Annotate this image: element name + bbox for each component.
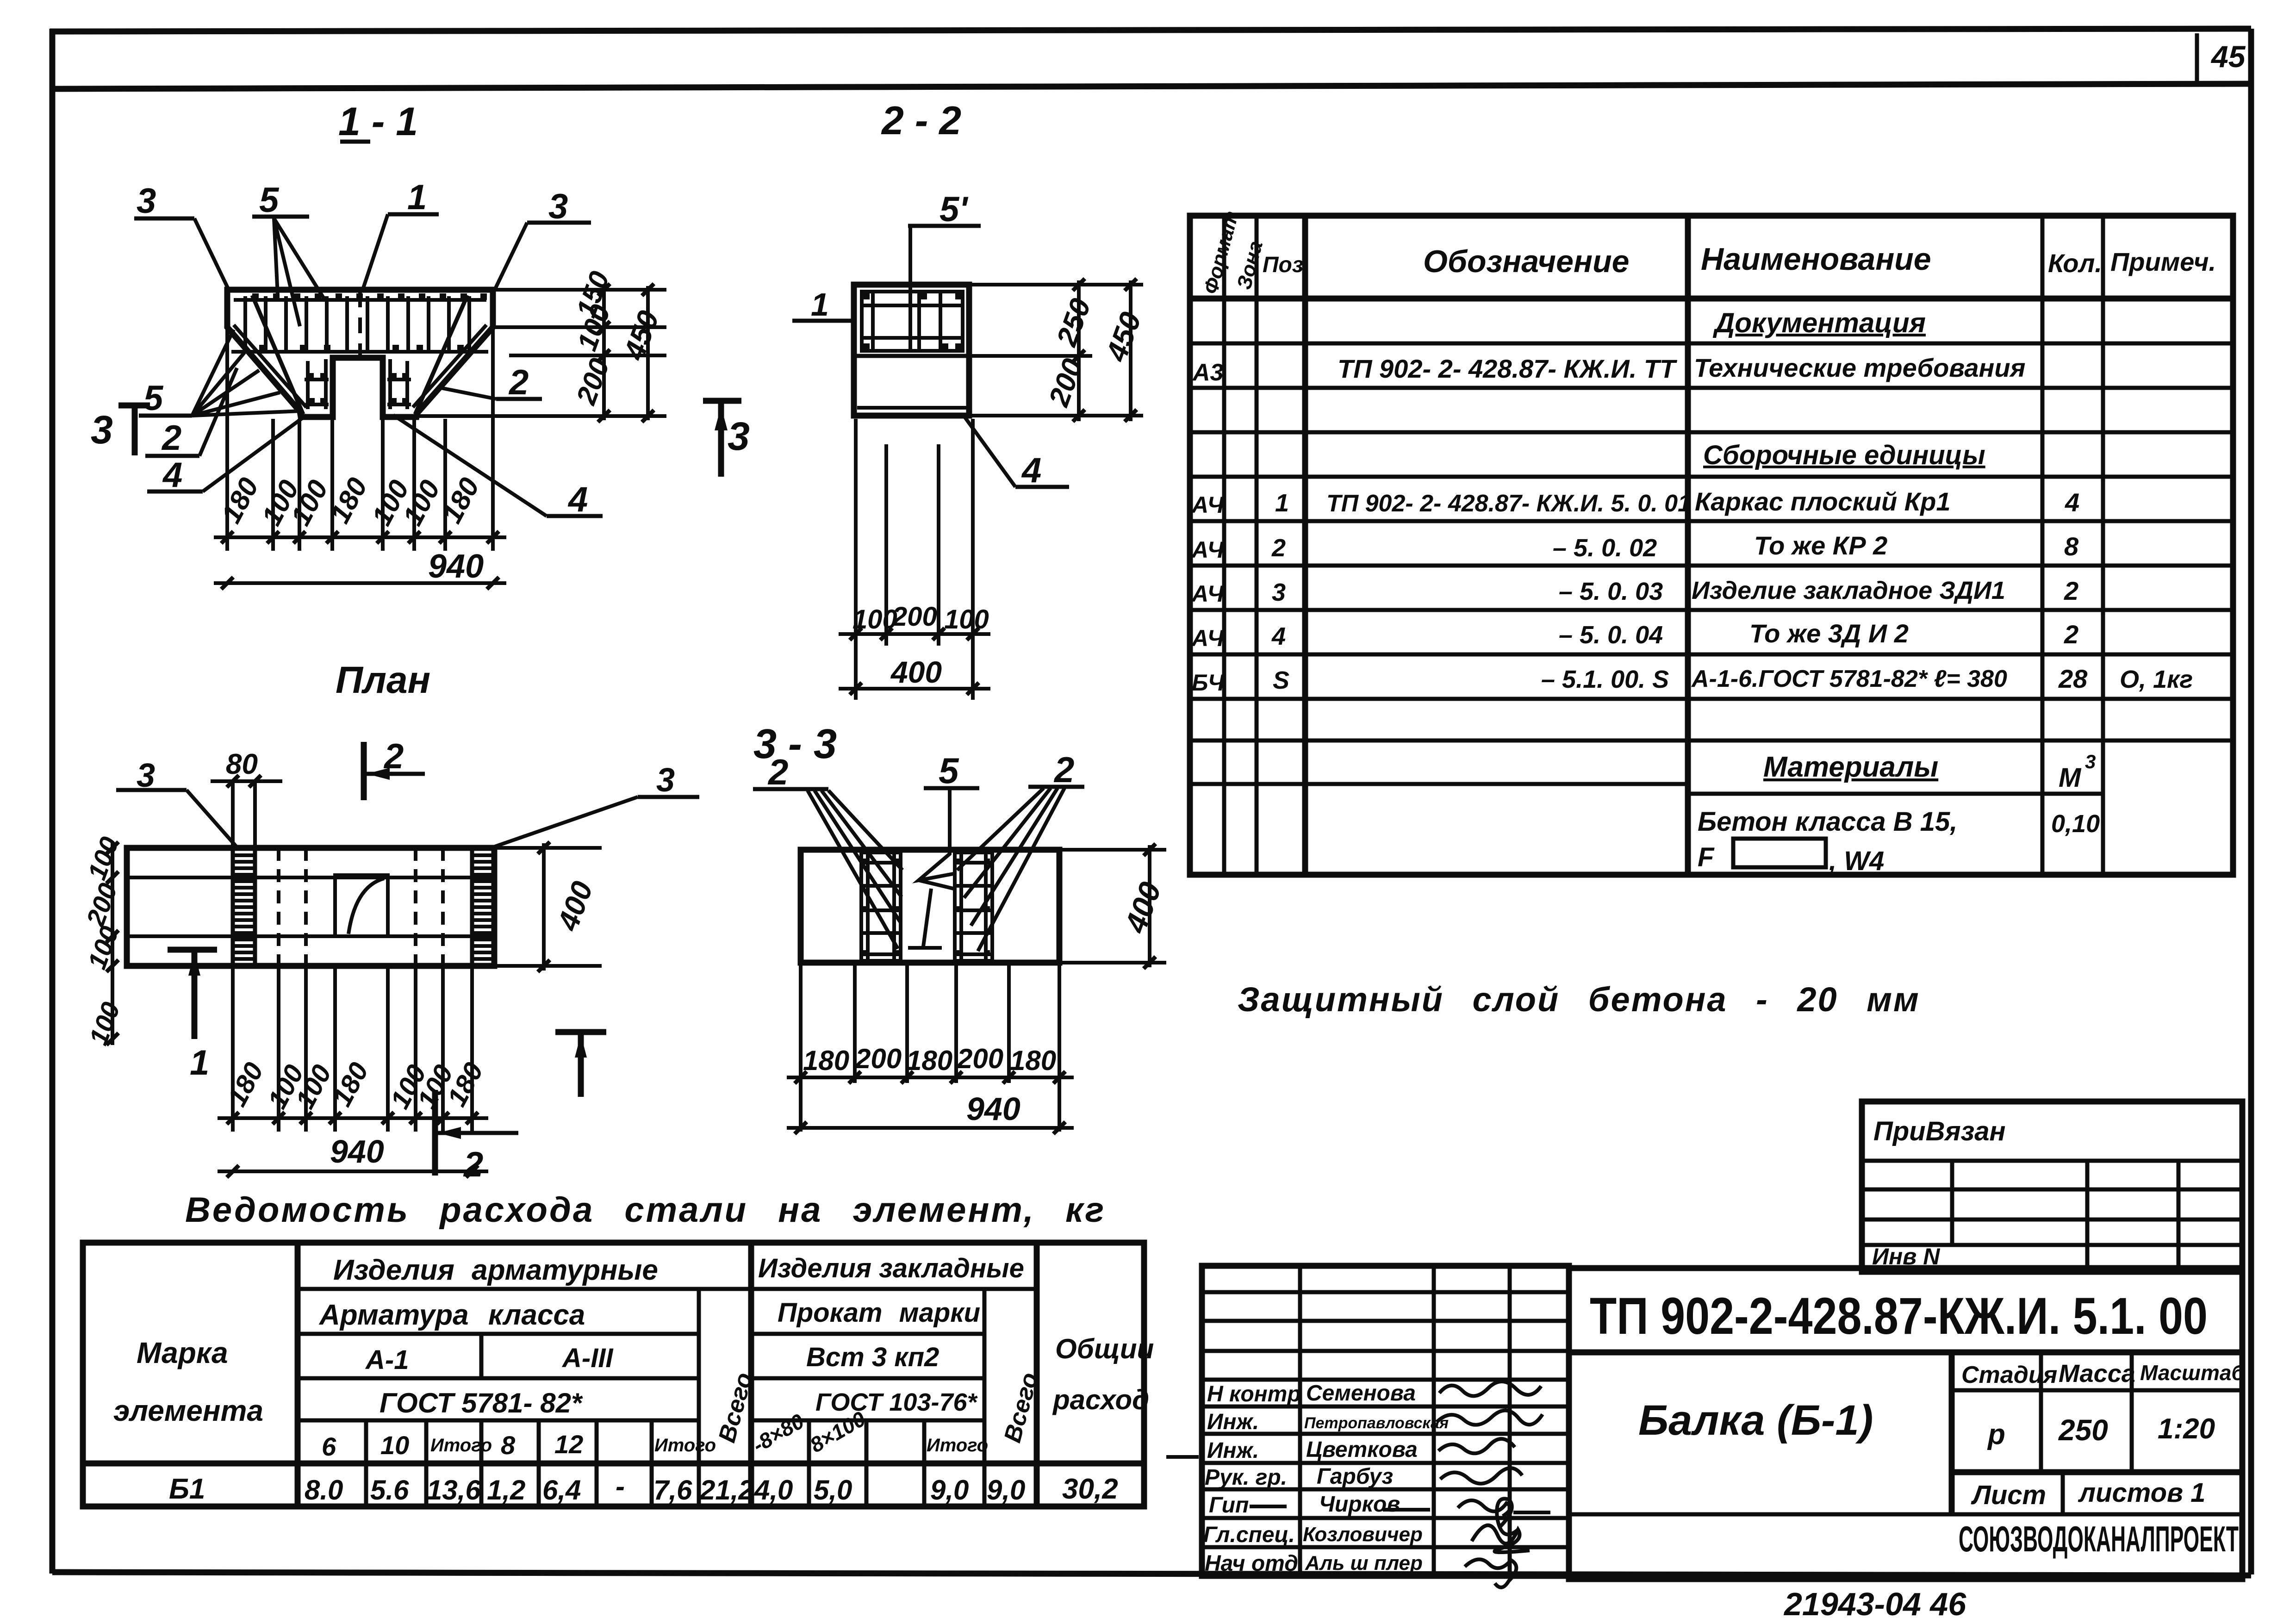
row rule	[1190, 342, 2233, 346]
svg-text:3: 3	[137, 181, 156, 221]
svg-text:Защитный слой бетона - 20 мм: Защитный слой бетона - 20 мм	[1238, 980, 1920, 1019]
dimension ticks	[221, 531, 499, 543]
right cage dots	[956, 859, 990, 956]
left leg stirrup verticals	[308, 359, 326, 409]
row rule	[1190, 697, 2233, 701]
right dim 400 of plan	[496, 848, 602, 966]
svg-text:СОЮЗВОДОКАНАЛПРОЕКТ: СОЮЗВОДОКАНАЛПРОЕКТ	[1959, 1518, 2239, 1559]
svg-text:2: 2	[161, 418, 181, 458]
embed plate anchor curve	[348, 878, 384, 934]
svg-text:, W4: , W4	[1829, 846, 1884, 876]
row rule	[1190, 608, 2233, 612]
svg-text:Цветкова: Цветкова	[1306, 1437, 1418, 1462]
svg-text:5: 5	[939, 750, 959, 791]
table outer frame	[83, 1243, 1144, 1506]
section marker 3 left	[118, 403, 150, 409]
svg-text:5: 5	[259, 180, 280, 220]
svg-text:-: -	[616, 1471, 625, 1502]
bent-up bar right	[415, 295, 467, 414]
svg-text:3 - 3: 3 - 3	[753, 721, 837, 767]
bottom dim line	[839, 632, 990, 636]
page frame right border	[2248, 29, 2254, 1574]
svg-text:Гип: Гип	[1209, 1493, 1249, 1518]
svg-text:То же КР 2: То же КР 2	[1754, 531, 1887, 560]
left cage rungs	[861, 863, 901, 954]
svg-text:ГОСТ 5781- 82*: ГОСТ 5781- 82*	[380, 1388, 583, 1419]
svg-text:План: План	[336, 659, 430, 701]
привязан column rules	[1952, 1161, 2178, 1272]
bottom chamfer line	[857, 406, 966, 410]
svg-text:Петропавловская: Петропавловская	[1304, 1414, 1449, 1432]
row rule	[1190, 475, 2233, 479]
svg-text:– 5. 0. 02: – 5. 0. 02	[1553, 534, 1657, 562]
values row rule	[1952, 1469, 2242, 1475]
beam cross-section outline	[227, 290, 493, 417]
svg-text:р: р	[1987, 1419, 2005, 1450]
svg-text:8: 8	[2064, 532, 2079, 561]
svg-text:АЧ: АЧ	[1191, 537, 1225, 563]
cage/concrete divider	[854, 354, 969, 358]
left embed band	[233, 848, 255, 966]
svg-text:Итого: Итого	[927, 1435, 988, 1456]
svg-text:S: S	[1273, 666, 1289, 694]
svg-text:листов 1: листов 1	[2078, 1478, 2205, 1508]
svg-text:100: 100	[944, 604, 989, 635]
sub column lines	[366, 1420, 924, 1506]
beam inner cage left diagonal	[234, 325, 306, 407]
title block main box	[1569, 1268, 2242, 1579]
svg-text:– 5. 0. 04: – 5. 0. 04	[1559, 621, 1663, 649]
svg-text:Изделия арматурные: Изделия арматурные	[333, 1254, 658, 1286]
svg-text:2: 2	[1053, 749, 1074, 790]
overall dim line 450	[1129, 280, 1132, 421]
svg-text:28: 28	[2058, 664, 2088, 693]
cage rebar dots	[864, 293, 961, 349]
svg-text:400: 400	[890, 655, 942, 689]
page frame left border	[50, 29, 56, 1574]
row rule 2	[298, 1332, 984, 1336]
left leg rebar dots	[308, 373, 326, 404]
svg-text:Итого: Итого	[654, 1435, 716, 1456]
specification table outer frame	[1190, 216, 2233, 875]
bottom extension lines	[227, 330, 493, 551]
header row rule	[1952, 1388, 2242, 1393]
стадия/масса/масштаб dividers	[2041, 1352, 2132, 1472]
page frame top border	[50, 29, 2251, 31]
svg-text:0,10: 0,10	[2051, 810, 2100, 838]
overall height dimension line	[646, 286, 650, 420]
right extension lines	[419, 290, 666, 416]
row rule	[1190, 519, 2233, 523]
plan outline	[127, 848, 494, 966]
section marker 2 bottom	[432, 1090, 438, 1176]
svg-text:А-III: А-III	[561, 1343, 614, 1373]
document number row rule	[1569, 1350, 2242, 1356]
svg-text:– 5.1. 00. S: – 5.1. 00. S	[1541, 666, 1669, 693]
plan bottom extension lines	[233, 968, 472, 1132]
svg-text:4,0: 4,0	[754, 1475, 793, 1506]
dimension line spacings	[214, 535, 506, 539]
svg-text:9,0: 9,0	[930, 1475, 969, 1506]
left dims of plan	[111, 842, 114, 1045]
overall 400 dim line	[839, 687, 990, 691]
svg-text:Материалы: Материалы	[1763, 751, 1938, 783]
svg-text:3: 3	[91, 408, 113, 452]
svg-text:45: 45	[2210, 39, 2246, 74]
svg-text:Бетон класса В 15,: Бетон класса В 15,	[1698, 807, 1957, 837]
svg-text:80: 80	[226, 748, 258, 780]
sheet number divider tick	[2195, 33, 2199, 83]
привязан row rules	[1862, 1161, 2242, 1245]
svg-text:ТП 902-2-428.87-КЖ.И. 5.1. 00: ТП 902-2-428.87-КЖ.И. 5.1. 00	[1590, 1287, 2208, 1345]
svg-text:Гарбуз: Гарбуз	[1317, 1464, 1393, 1489]
beam inner cage flange bottom line	[231, 350, 488, 354]
column line Обозначение	[1685, 216, 1691, 875]
svg-text:4: 4	[162, 455, 182, 495]
svg-text:1: 1	[811, 286, 829, 323]
svg-text:Аль ш плер: Аль ш плер	[1305, 1552, 1423, 1574]
left cage dots	[863, 859, 899, 956]
svg-text:1: 1	[1275, 489, 1289, 517]
svg-text:Рук. гр.: Рук. гр.	[1205, 1465, 1287, 1490]
column divider закладные/общий	[1034, 1243, 1040, 1506]
svg-text:Масштаб: Масштаб	[2140, 1361, 2245, 1385]
svg-text:10: 10	[380, 1431, 409, 1460]
svg-text:1:20: 1:20	[2158, 1413, 2215, 1445]
row rule	[1190, 564, 2233, 568]
svg-text:2: 2	[463, 1145, 483, 1184]
svg-text:элемента: элемента	[113, 1394, 263, 1427]
section marker 1 right	[555, 1029, 606, 1035]
svg-text:Ведомость расхода стали на: Ведомость расхода стали на элемент, кг	[185, 1190, 1106, 1230]
row rule	[1190, 653, 2233, 657]
row rule	[1190, 430, 2233, 435]
svg-text:5,0: 5,0	[814, 1475, 852, 1506]
А-1/А-III divider	[479, 1334, 484, 1506]
svg-text:1 - 1: 1 - 1	[338, 100, 418, 144]
svg-text:Инж.: Инж.	[1207, 1410, 1259, 1434]
right extension lines	[971, 285, 1143, 416]
svg-text:Н контр: Н контр	[1207, 1382, 1301, 1406]
signatures table rows	[1202, 1292, 1569, 1547]
svg-text:180: 180	[803, 1045, 849, 1076]
right dim 400 of 3-3	[1061, 850, 1166, 963]
svg-text:2: 2	[2064, 620, 2078, 649]
svg-text:200: 200	[957, 1043, 1003, 1074]
column Марка элемента	[295, 1243, 301, 1506]
svg-text:2: 2	[2064, 576, 2078, 605]
svg-text:ПриВязан: ПриВязан	[1873, 1116, 2006, 1146]
svg-text:9,0: 9,0	[987, 1475, 1025, 1506]
svg-text:5.6: 5.6	[370, 1475, 409, 1506]
left band hatching	[233, 855, 255, 959]
svg-text:Поз.: Поз.	[1263, 253, 1310, 277]
svg-text:Вст 3 кп2: Вст 3 кп2	[806, 1342, 939, 1372]
svg-text:200: 200	[892, 602, 937, 632]
svg-text:1,2: 1,2	[487, 1475, 525, 1506]
row rule 4	[298, 1419, 984, 1423]
svg-text:Прокат марки: Прокат марки	[778, 1298, 980, 1328]
signatures table frame	[1202, 1266, 1569, 1576]
Всего column 1	[697, 1289, 701, 1506]
right band hatching	[472, 855, 494, 959]
svg-text:1: 1	[190, 1043, 209, 1083]
svg-text:БЧ: БЧ	[1192, 670, 1225, 696]
right leg stirrup verticals	[390, 359, 407, 409]
svg-text:200: 200	[855, 1043, 902, 1074]
handwritten signatures	[1439, 1381, 1541, 1396]
section 1-1 title underline	[340, 140, 370, 144]
right dim line	[1077, 280, 1081, 421]
svg-text:Обозначение: Обозначение	[1423, 244, 1629, 279]
left cage box	[861, 852, 901, 961]
svg-text:Арматура класса: Арматура класса	[318, 1299, 585, 1331]
overall dim line 940	[787, 1126, 1074, 1130]
svg-text:4: 4	[1021, 451, 1041, 490]
svg-text:21943-04 46: 21943-04 46	[1783, 1586, 1966, 1622]
svg-text:3: 3	[548, 187, 568, 226]
section 3-3 outline	[801, 850, 1059, 963]
center dashed axis	[358, 292, 362, 356]
column divider арматурные/закладные	[748, 1243, 754, 1506]
svg-text:180: 180	[906, 1045, 952, 1076]
cage verticals	[873, 292, 940, 351]
right embed band	[472, 848, 494, 966]
svg-text:Наименование: Наименование	[1701, 242, 1931, 277]
svg-text:Марка: Марка	[137, 1336, 228, 1369]
row rule 1	[298, 1287, 1037, 1291]
svg-text:21,2: 21,2	[699, 1475, 754, 1506]
embed plate in plan	[335, 875, 388, 936]
rebar cage rect	[862, 292, 963, 351]
svg-text:Козловичер: Козловичер	[1303, 1523, 1423, 1546]
svg-text:7,6: 7,6	[653, 1475, 692, 1506]
svg-text:3: 3	[2085, 751, 2096, 772]
svg-text:Нач отд: Нач отд	[1205, 1551, 1298, 1576]
svg-text:3: 3	[728, 414, 750, 459]
spacing dim line	[787, 1076, 1074, 1079]
beam inner cage right diagonal	[413, 325, 486, 407]
svg-text:Документация: Документация	[1712, 307, 1926, 338]
cage horizontals	[862, 305, 963, 338]
svg-text:13,6: 13,6	[427, 1475, 481, 1506]
plan inner line top	[127, 876, 494, 879]
svg-text:Изделие закладное ЗДИ1: Изделие закладное ЗДИ1	[1692, 577, 2005, 604]
section marker 3 right	[703, 398, 741, 404]
svg-text:4: 4	[567, 480, 588, 519]
svg-text:Кол.: Кол.	[2048, 249, 2102, 278]
svg-text:А-1-6.ГОСТ 5781-82* ℓ= 380: А-1-6.ГОСТ 5781-82* ℓ= 380	[1691, 666, 2007, 692]
top band rule	[52, 84, 2251, 89]
svg-text:2: 2	[383, 737, 404, 776]
svg-text:2 - 2: 2 - 2	[881, 99, 961, 143]
svg-text:Гл.спец.: Гл.спец.	[1203, 1523, 1295, 1547]
svg-text:940: 940	[966, 1091, 1020, 1127]
column line Зона	[1255, 216, 1259, 875]
rebar dots flange bottom row	[259, 345, 464, 351]
row rule 3	[298, 1376, 984, 1381]
svg-text:Каркас плоский Кр1: Каркас плоский Кр1	[1695, 487, 1950, 516]
svg-text:12: 12	[554, 1430, 583, 1459]
svg-text:180: 180	[1010, 1045, 1056, 1076]
right cage rungs	[955, 863, 992, 954]
bottom extension lines	[801, 965, 1059, 1132]
right leg rungs	[387, 380, 411, 404]
svg-text:2: 2	[508, 363, 529, 402]
hidden stirrup dashed lines	[279, 848, 443, 966]
header bottom rule	[1190, 296, 2233, 302]
svg-text:2: 2	[1271, 534, 1286, 562]
svg-text:Стадия: Стадия	[1961, 1362, 2057, 1388]
plan inner line bottom	[127, 934, 494, 938]
right cage box	[955, 852, 992, 961]
svg-text:Общии: Общии	[1055, 1333, 1154, 1364]
лист row rule	[1569, 1512, 2242, 1517]
svg-text:АЧ: АЧ	[1191, 625, 1225, 651]
svg-text:30,2: 30,2	[1062, 1473, 1118, 1505]
stray revision dashes	[1166, 1457, 1550, 1512]
svg-text:8.0: 8.0	[305, 1475, 343, 1506]
svg-text:М: М	[2059, 763, 2082, 793]
svg-text:АЧ: АЧ	[1191, 492, 1225, 518]
bottom extension lines	[856, 419, 973, 700]
svg-text:3: 3	[656, 762, 675, 799]
svg-text:F: F	[1698, 842, 1715, 872]
svg-text:2: 2	[767, 752, 788, 792]
beam inner cage top bar line	[234, 298, 486, 302]
svg-text:4: 4	[1271, 622, 1286, 650]
row rule right part	[1688, 792, 2103, 796]
svg-text:940: 940	[330, 1133, 384, 1170]
svg-text:О, 1кг: О, 1кг	[2120, 666, 2193, 693]
column line Наименование	[2041, 216, 2045, 875]
column line Формат	[1222, 216, 1226, 875]
svg-text:Балка (Б-1): Балка (Б-1)	[1638, 1397, 1873, 1444]
svg-text:250: 250	[2058, 1413, 2108, 1447]
svg-text:Б1: Б1	[169, 1473, 205, 1505]
rebar dots top row	[252, 293, 487, 300]
svg-text:АЧ: АЧ	[1191, 581, 1225, 607]
section 2-2 outline	[854, 285, 969, 416]
left leg rungs	[305, 380, 329, 404]
svg-text:4: 4	[2065, 488, 2079, 517]
column line Поз	[1302, 216, 1308, 875]
svg-text:Чирков: Чирков	[1319, 1492, 1400, 1517]
svg-text:А3: А3	[1192, 359, 1224, 386]
Всего column 2	[983, 1289, 987, 1506]
row rule	[1190, 739, 2233, 743]
overall width dimension line	[214, 581, 506, 585]
svg-text:Сборочные единицы: Сборочные единицы	[1703, 440, 1985, 470]
svg-text:6,4: 6,4	[542, 1475, 581, 1506]
plan overall dim line 940	[218, 1170, 488, 1173]
right dimension line	[602, 286, 606, 420]
svg-text:расход: расход	[1052, 1384, 1149, 1415]
svg-text:3: 3	[1272, 579, 1286, 606]
bent bar item 5	[908, 788, 953, 948]
svg-text:Примеч.: Примеч.	[2110, 247, 2216, 276]
svg-text:Лист: Лист	[1971, 1480, 2046, 1510]
signatures table columns	[1300, 1266, 1510, 1576]
svg-text:Масса: Масса	[2059, 1360, 2135, 1388]
svg-text:1: 1	[407, 178, 427, 217]
лист/листов divider	[2061, 1472, 2065, 1514]
svg-text:То же 3Д И 2: То же 3Д И 2	[1749, 619, 1909, 648]
svg-text:ГОСТ 103-76*: ГОСТ 103-76*	[815, 1388, 978, 1416]
svg-text:Изделия закладные: Изделия закладные	[758, 1253, 1024, 1283]
svg-text:Инж.: Инж.	[1207, 1438, 1259, 1463]
row rule left part	[1190, 782, 1688, 786]
svg-text:5': 5'	[940, 190, 969, 229]
row rule	[1190, 386, 2233, 390]
svg-text:5: 5	[143, 379, 164, 418]
svg-text:Технические требования: Технические требования	[1694, 353, 2026, 382]
stirrup bars in flange	[245, 296, 469, 351]
column line Кол	[2101, 216, 2105, 875]
bent-up bar left	[252, 295, 303, 414]
section marker 1 bottom-left	[168, 947, 217, 953]
section marker 2 top	[361, 742, 367, 800]
svg-text:100: 100	[852, 604, 897, 635]
svg-text:А-1: А-1	[365, 1345, 409, 1375]
svg-text:– 5. 0. 03: – 5. 0. 03	[1559, 578, 1663, 605]
svg-text:940: 940	[428, 548, 484, 585]
page frame bottom border	[52, 1572, 2251, 1575]
svg-text:Семенова: Семенова	[1306, 1381, 1416, 1406]
svg-text:8: 8	[501, 1431, 516, 1460]
svg-text:Итого: Итого	[430, 1435, 492, 1456]
stадия column divider	[1949, 1352, 1955, 1514]
svg-text:ТП 902- 2- 428.87- КЖ.И. ТТ: ТП 902- 2- 428.87- КЖ.И. ТТ	[1338, 354, 1678, 383]
attachment box Привязан	[1862, 1101, 2242, 1272]
svg-text:6: 6	[322, 1432, 336, 1461]
row rule data	[83, 1461, 1144, 1467]
right leg rebar dots	[391, 373, 408, 404]
svg-text:ТП 902- 2- 428.87- КЖ.И. 5. 0.: ТП 902- 2- 428.87- КЖ.И. 5. 0. 01	[1326, 490, 1691, 517]
plan spacing dim line	[218, 1116, 488, 1120]
